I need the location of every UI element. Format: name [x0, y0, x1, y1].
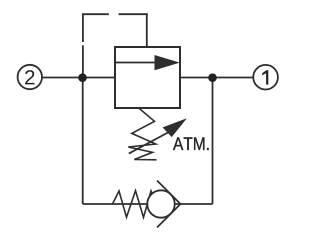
- node: junction dot at port 2: [78, 73, 87, 82]
- check valve ball: [147, 190, 174, 217]
- adjustment arrow through spring: [129, 133, 168, 154]
- label ATM.: [173, 137, 209, 150]
- wire: dashed pilot horizontal top: [82, 13, 148, 15]
- spring S2 on bottom branch: [113, 191, 157, 218]
- wire: left vertical branch down: [82, 78, 84, 204]
- valve body V1: [115, 47, 180, 108]
- wire: main line valve to port1: [180, 77, 253, 79]
- node: junction dot at port 1: [208, 73, 217, 82]
- port 2: [18, 65, 42, 89]
- wire: main line port2 to valve: [42, 77, 115, 79]
- spring (adjustable relief spring): [128, 109, 156, 160]
- wire: pilot vertical to valve top: [146, 13, 148, 47]
- wire: dashed pilot vertical from junction: [82, 14, 84, 74]
- wire: bottom horizontal branch: [83, 203, 213, 205]
- check valve seat: [157, 181, 181, 205]
- valve internal flow arrow: [116, 62, 157, 64]
- wire: right vertical branch down: [212, 78, 214, 204]
- port 1: [253, 65, 278, 90]
